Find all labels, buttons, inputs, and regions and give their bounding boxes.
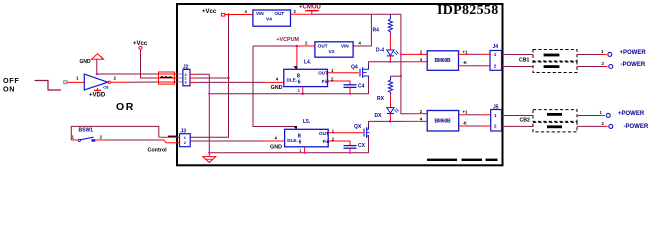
wire Q5 drain to LED junction (369, 121, 391, 125)
capacitor C5 (344, 145, 357, 147)
regulator V2 (315, 42, 353, 57)
svg-text:OUT: OUT (319, 131, 329, 136)
op-amp buffer U8 (84, 74, 108, 90)
arrow into U2 (293, 66, 297, 69)
svg-text:Q4: Q4 (351, 64, 358, 70)
wire U3 gnd stub (304, 147, 306, 153)
svg-text:6: 6 (298, 79, 301, 85)
wire U5 out top (459, 114, 468, 116)
svg-text:+CMOD: +CMOD (299, 5, 322, 11)
wire U2 gnd stub (302, 87, 304, 94)
wire +Vcc drop to J2 (141, 49, 159, 78)
wire V4 out (291, 13, 312, 15)
wire box C to +POWER (577, 115, 600, 117)
node D4 junction (389, 61, 391, 63)
svg-text:+POWER: +POWER (620, 50, 647, 56)
wire top rail to R4 and right column (312, 13, 401, 15)
svg-text:GND: GND (270, 145, 282, 151)
wire rail to driver pin2 (401, 53, 427, 55)
svg-text:3: 3 (185, 81, 187, 85)
wire right power column (401, 14, 407, 113)
wire VCPUM drop to U2 (296, 46, 298, 69)
wire +Vcc rail down to J3 (190, 15, 228, 138)
svg-text:GND: GND (271, 85, 283, 91)
wire J2 pin2 +Vcc (190, 77, 195, 79)
svg-text:1: 1 (72, 134, 75, 139)
connector -POWER ch2 (609, 124, 613, 128)
wire U2 Fin to C4 (328, 81, 351, 85)
connector J3 (180, 134, 191, 147)
connector +POWER ch1 (608, 52, 612, 56)
wire J2 pin4 to ground column (190, 73, 195, 75)
fuse box D (dashed) (533, 122, 577, 131)
svg-text:CB1: CB1 (519, 58, 529, 64)
wire J2 pin3 to oscillator U2 (190, 81, 195, 83)
svg-text:2: 2 (494, 63, 497, 68)
svg-text:BM60B: BM60B (435, 118, 452, 124)
wire box A to +POWER (577, 54, 602, 56)
svg-text:R4: R4 (373, 27, 380, 33)
svg-text:DX: DX (375, 113, 383, 119)
black tick at J3 (168, 136, 177, 138)
connector J5 (491, 110, 502, 132)
wire J5 to CB box C (502, 115, 534, 117)
wire D4 to junction (389, 56, 391, 62)
svg-text:DLE.: DLE. (287, 78, 297, 83)
svg-text:V4: V4 (266, 17, 272, 23)
svg-text:IDP82558: IDP82558 (437, 3, 499, 18)
svg-text:D-4: D-4 (376, 48, 384, 54)
node Vcc junction (227, 13, 229, 15)
svg-text:OUT: OUT (318, 43, 328, 48)
svg-text:+POWER: +POWER (618, 111, 645, 117)
wire box B to -POWER (577, 66, 603, 68)
+VDD power bar (94, 89, 101, 91)
svg-text:Control: Control (148, 147, 168, 153)
driver U5 (427, 111, 459, 132)
wire V2 out (297, 45, 315, 47)
terminal red box (159, 72, 175, 84)
wire junction to driver U4 (390, 61, 405, 63)
wire J3 pin2 to U3 (190, 140, 264, 142)
svg-text:+Vcc: +Vcc (202, 9, 217, 15)
svg-text:-POWER: -POWER (624, 124, 649, 130)
waveform step input (35, 81, 62, 91)
svg-text:+VDD: +VDD (89, 93, 106, 99)
wire J5 to CB box D (502, 125, 534, 127)
svg-text:1: 1 (494, 52, 497, 57)
svg-text:6: 6 (299, 140, 302, 146)
svg-text:C4: C4 (358, 84, 365, 90)
wire J4 to CB box B (502, 66, 534, 68)
svg-text:OUT: OUT (275, 11, 285, 16)
node U3 gnd (303, 152, 305, 154)
wire switch loop to J3 pin2 (71, 126, 159, 140)
node D5 junction (389, 120, 391, 122)
wire V2 feed column (353, 14, 371, 46)
wire switch pin1 stub (71, 139, 78, 141)
connector -POWER ch1 (609, 65, 613, 69)
wire junction to driver U5 (390, 120, 407, 122)
svg-text:J5: J5 (493, 105, 499, 111)
svg-text:QX: QX (354, 124, 362, 130)
wire U3 OUT to Q5 gate (328, 132, 363, 134)
node J2-Vcc junction (227, 77, 229, 79)
svg-text:VIN: VIN (256, 11, 264, 16)
oscillator U2 (284, 69, 328, 86)
node rail branch to driver (400, 53, 402, 55)
svg-text:+1: +1 (463, 109, 469, 114)
capacitor C4 (344, 84, 357, 86)
svg-text:V2: V2 (329, 49, 335, 55)
svg-text:GND: GND (80, 59, 92, 65)
ground rail channel 1 (209, 76, 368, 94)
wire box D to -POWER (577, 125, 603, 127)
svg-text:ON: ON (3, 84, 15, 93)
wire R5 to D5 (390, 94, 392, 107)
svg-text:DLE.: DLE. (287, 138, 297, 143)
+Vcc pin circle (139, 46, 142, 49)
wire GND stem (96, 60, 98, 75)
wire buffer output to J2 (111, 81, 127, 83)
regulator V4 (253, 10, 291, 26)
svg-text:1: 1 (76, 76, 79, 81)
svg-text:J4: J4 (493, 44, 499, 50)
driver U4 (427, 51, 458, 71)
wire +Vcc to V4 (225, 14, 253, 16)
connector +POWER ch2 (606, 113, 610, 117)
svg-text:2: 2 (114, 76, 117, 81)
ground symbol (208, 153, 210, 157)
node VCPUM junction (296, 45, 298, 47)
wire Q4 drain to LED junction (369, 62, 390, 66)
node C4 gnd (349, 93, 351, 95)
wire U4 out top (459, 53, 469, 55)
wire GND to J2 (97, 73, 159, 75)
wire switch pin2 to J3 pin1 (95, 139, 104, 141)
connector J2 (183, 69, 190, 85)
node rail-gnd column (208, 93, 210, 95)
node C5 gnd (349, 152, 351, 154)
fuse box B (dashed) (533, 62, 577, 73)
wire input to buffer (67, 81, 84, 83)
svg-text:2: 2 (100, 134, 103, 139)
+Vcc pin square (221, 13, 224, 16)
wire U3 Fin to C5 (328, 141, 350, 146)
footer signature bars (427, 159, 457, 161)
wire rail to R5 (391, 75, 401, 77)
svg-text:L4.: L4. (304, 60, 312, 66)
svg-text:OR: OR (116, 101, 135, 113)
svg-text:Fin: Fin (323, 139, 330, 144)
wire D5 to junction (389, 114, 391, 122)
svg-text:+VCPUM: +VCPUM (276, 37, 299, 43)
arrow into U3 (293, 126, 297, 129)
oscillator U3 (285, 129, 329, 147)
fuse box A (dashed) (533, 50, 577, 62)
node GND junction (96, 73, 98, 75)
svg-text:1: 1 (494, 113, 497, 118)
wire J4 to CB box A (502, 54, 534, 56)
input pin stub (64, 81, 67, 84)
svg-text:BM60B: BM60B (435, 58, 452, 64)
wire VCPUM to left column (253, 45, 297, 47)
svg-text:RX: RX (377, 96, 385, 102)
svg-text:BSW1: BSW1 (79, 127, 94, 133)
wire U2 OUT to Q4 gate (328, 72, 359, 74)
wire U4 out bottom (459, 65, 469, 67)
svg-text:CX: CX (358, 143, 366, 149)
svg-text:VIN: VIN (341, 43, 349, 48)
svg-text:J3: J3 (181, 129, 187, 135)
svg-text:2: 2 (494, 123, 497, 128)
svg-text:CB2: CB2 (520, 117, 530, 123)
module border frame (177, 4, 503, 165)
ground rail channel 2 (209, 135, 368, 153)
node U2 gnd (302, 93, 304, 95)
svg-text:J2: J2 (183, 64, 189, 70)
fuse box C (dashed) (533, 110, 577, 122)
svg-text:-POWER: -POWER (621, 62, 646, 68)
output bubble (108, 81, 110, 83)
svg-text:OUT: OUT (318, 71, 328, 76)
wire R4 to D4 (389, 34, 391, 50)
GND power symbol (92, 54, 104, 59)
svg-text:C8: C8 (103, 84, 109, 89)
connector J4 (490, 51, 502, 71)
node ground (208, 152, 210, 154)
wire U5 out bottom (459, 125, 468, 127)
wire VCPUM column down to U3 (253, 46, 296, 129)
svg-text:L5.: L5. (303, 119, 311, 125)
node rail to R5 (400, 75, 402, 77)
